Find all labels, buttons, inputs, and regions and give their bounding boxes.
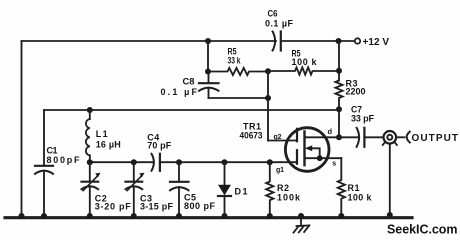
gate g2 bar — [296, 129, 298, 141]
svg-text:3-15 pF: 3-15 pF — [140, 202, 174, 212]
wire from top rail down to C8/R5 node — [207, 41, 209, 72]
wire left rail — [21, 41, 23, 217]
wire +12V down to R3 — [338, 41, 340, 81]
node: L1/C2 junction — [87, 159, 93, 165]
node: L1 top junction — [87, 107, 93, 113]
svg-text:+12 V: +12 V — [363, 37, 390, 48]
wire connector shield to ground rail — [389, 144, 391, 216]
svg-text:R1: R1 — [348, 183, 360, 193]
resistor R5 100k — [268, 49, 339, 75]
+12V terminal — [355, 37, 390, 48]
svg-text:16 µH: 16 µH — [96, 140, 121, 150]
resistor R3 2200 — [335, 79, 365, 138]
svg-text:C8: C8 — [183, 77, 195, 87]
node: drain node junction (R3 bottom / tank wire) — [336, 106, 342, 112]
svg-text:g2: g2 — [274, 134, 282, 141]
wire top rail right of C6 to +12V — [281, 40, 355, 42]
gate g1 lead from tank wire — [296, 161, 299, 163]
source lead — [305, 157, 342, 159]
svg-text:SeekIC.com: SeekIC.com — [387, 223, 458, 237]
svg-text:2200: 2200 — [346, 87, 366, 97]
resistor R1 100k — [338, 158, 373, 216]
svg-text:C6: C6 — [268, 9, 278, 19]
node: junction top rail to bias divider — [205, 38, 211, 44]
wire tank bottom rail (gate g1 node) — [90, 161, 154, 163]
wire node B vertical down to gate g2 — [267, 71, 269, 140]
wire tank top rail (drain node) — [44, 109, 339, 111]
svg-text:0.1 µF: 0.1 µF — [265, 19, 294, 29]
drain lead — [305, 136, 340, 138]
node B junction dots — [265, 68, 271, 74]
capacitor C8 — [161, 72, 219, 99]
node: substrate-source junction — [317, 155, 323, 161]
wire top ground rail left — [22, 40, 277, 42]
gate g2 lead — [268, 140, 297, 142]
capacitor C4 70pF — [147, 133, 296, 171]
resistor R2 100k — [266, 162, 301, 216]
ground symbol (chassis) — [294, 219, 310, 233]
capacitor C7 33pF — [339, 105, 384, 147]
output connector jack — [383, 131, 458, 145]
resistor R5 33k — [208, 47, 268, 76]
svg-text:40673: 40673 — [240, 131, 263, 141]
channel bar — [303, 132, 305, 166]
svg-text:L1: L1 — [96, 129, 108, 139]
capacitor C3 variable 3-15pF — [126, 162, 174, 216]
capacitor C1 — [35, 110, 80, 217]
svg-text:R2: R2 — [277, 183, 289, 193]
svg-text:OUTPUT: OUTPUT — [412, 133, 459, 144]
svg-text:800 pF: 800 pF — [184, 201, 216, 211]
svg-text:100k: 100k — [277, 193, 301, 203]
bottom ground rail — [5, 216, 412, 219]
wire C8 bottom to node B — [209, 97, 269, 99]
svg-text:C1: C1 — [47, 146, 58, 156]
node: D1 top junction — [222, 159, 228, 165]
node: +12V rail junction — [336, 38, 342, 44]
inductor L1 16uH — [86, 110, 121, 162]
node: R2 top junction — [267, 159, 273, 165]
svg-text:d: d — [328, 127, 333, 136]
node: junction dot at 208,71.5 — [205, 69, 211, 75]
svg-text:33 k: 33 k — [228, 56, 242, 66]
capacitor C2 variable 3-20pF — [82, 162, 132, 216]
gate g1 bar — [296, 150, 298, 164]
svg-text:s: s — [332, 161, 336, 168]
node: rail junction dots — [19, 213, 25, 219]
svg-text:100 k: 100 k — [348, 193, 373, 203]
node: connector ground junction — [387, 212, 393, 218]
substrate arrow — [311, 148, 320, 158]
capacitor C5 800pF — [170, 162, 216, 216]
diode D1 — [218, 162, 248, 216]
svg-text:g1: g1 — [276, 167, 284, 174]
capacitor C6 — [265, 9, 294, 51]
svg-text:33 pF: 33 pF — [351, 114, 375, 124]
node: C5 top junction — [176, 159, 182, 165]
transistor TR1 40673 dual-gate MOSFET — [240, 122, 342, 175]
node: R5b right end — [336, 68, 342, 74]
svg-text:100 k: 100 k — [292, 57, 318, 67]
node: C3 top junction — [131, 159, 137, 165]
node: drain lead junction — [336, 134, 342, 140]
svg-text:3-20 pF: 3-20 pF — [95, 202, 132, 212]
svg-text:70 pF: 70 pF — [147, 141, 172, 151]
